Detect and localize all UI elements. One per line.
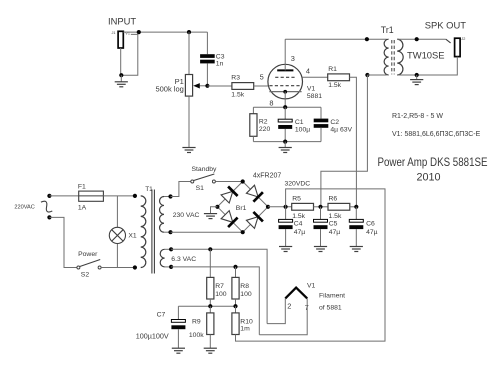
- filament of V1: [285, 288, 307, 299]
- transformer T1 HV secondary winding: [160, 197, 164, 233]
- speaker jack J2: [446, 37, 466, 57]
- wire R10 to B+ rail: [236, 189, 386, 341]
- capacitor C3: [200, 54, 215, 58]
- node mains terminal N: [47, 215, 51, 219]
- svg-text:1.5k: 1.5k: [328, 82, 341, 89]
- svg-text:1.5k: 1.5k: [292, 213, 305, 220]
- svg-text:R8: R8: [240, 283, 249, 290]
- wire bridge positive to rail: [268, 206, 292, 208]
- wire R6 to C6 node: [350, 206, 357, 208]
- wire Tr1 secondary bottom: [397, 74, 417, 76]
- node secondary top dot: [415, 37, 419, 41]
- wire C7 bottom lead: [177, 329, 179, 348]
- resistor R9: [207, 313, 214, 335]
- wire humdinger rail: [178, 305, 235, 307]
- wire P1 top lead: [188, 32, 190, 74]
- svg-text:C6: C6: [366, 220, 375, 227]
- svg-text:1m: 1m: [240, 326, 250, 333]
- svg-text:5: 5: [260, 73, 264, 82]
- ground C7: [172, 347, 185, 349]
- wire wiper node to R3: [207, 85, 232, 87]
- node anode wire dot: [365, 37, 369, 41]
- svg-text:4µ 63V: 4µ 63V: [330, 126, 352, 133]
- wire S1 to bridge top: [215, 181, 242, 183]
- ground input jack: [120, 75, 122, 81]
- node 6.3V top tap: [165, 248, 172, 250]
- svg-text:230 VAC: 230 VAC: [173, 212, 200, 219]
- svg-text:C2: C2: [330, 119, 339, 126]
- svg-text:100µ: 100µ: [295, 126, 310, 133]
- svg-text:R10: R10: [240, 318, 253, 325]
- svg-text:C4: C4: [294, 220, 303, 227]
- ground C5: [314, 246, 327, 248]
- svg-text:220VAC: 220VAC: [14, 205, 34, 211]
- svg-text:1.5k: 1.5k: [231, 91, 244, 98]
- svg-text:Standby: Standby: [192, 166, 218, 173]
- svg-text:100: 100: [215, 291, 227, 298]
- svg-text:V1: V1: [307, 86, 316, 93]
- svg-text:4xFR207: 4xFR207: [253, 173, 282, 180]
- wire C6 top lead: [355, 207, 357, 220]
- node bridge top: [241, 179, 245, 183]
- resistor R7: [207, 277, 214, 299]
- node 6.3V bottom tap: [165, 266, 172, 268]
- node R8 tap: [233, 265, 237, 269]
- svg-text:C5: C5: [329, 220, 338, 227]
- capacitor C1: [278, 119, 292, 122]
- svg-text:47µ: 47µ: [366, 229, 378, 236]
- wire C1 bottom lead: [284, 129, 286, 142]
- node C5 junction: [318, 205, 322, 209]
- wire jack sleeve bracket: [121, 34, 138, 75]
- svg-text:SPK OUT: SPK OUT: [425, 20, 466, 31]
- svg-text:2010: 2010: [416, 172, 440, 184]
- svg-text:J2: J2: [461, 37, 465, 41]
- ground C4: [279, 246, 292, 248]
- capacitor C2: [314, 119, 329, 123]
- resistor R5: [292, 203, 314, 210]
- wire input jack tip to signal line: [123, 31, 130, 33]
- wire cathode top rail: [253, 106, 321, 108]
- wire jack tip return: [120, 48, 122, 75]
- node R7 R9 junction: [208, 304, 212, 308]
- input jack J1: [112, 31, 130, 48]
- transformer Tr1 secondary winding: [397, 39, 403, 75]
- node bridge bottom: [241, 230, 245, 234]
- svg-text:R3: R3: [231, 75, 240, 82]
- svg-text:R1: R1: [328, 66, 337, 73]
- node wiper junction: [205, 84, 209, 88]
- svg-text:220: 220: [259, 126, 271, 133]
- wire input signal line: [131, 31, 208, 33]
- svg-text:Power Amp DKS 5881SE: Power Amp DKS 5881SE: [378, 156, 488, 169]
- wire C4 top lead: [285, 207, 287, 220]
- wire 6.3VAC top line: [171, 249, 267, 323]
- node T1 primary top dot: [133, 194, 137, 198]
- ground R9: [204, 347, 217, 349]
- wire filament pin 2 leg: [267, 298, 285, 323]
- node R8 R10 junction: [233, 304, 237, 308]
- wire fuse to T1 primary top: [103, 195, 134, 197]
- svg-text:of 5881: of 5881: [319, 304, 342, 311]
- svg-text:R9: R9: [192, 318, 201, 325]
- node C4 junction: [284, 205, 288, 209]
- svg-text:4: 4: [306, 67, 310, 76]
- transformer Tr1 core: [391, 40, 393, 74]
- wire C4 bottom lead: [285, 229, 287, 246]
- wire R9 top lead: [209, 306, 211, 313]
- wire C5 bottom lead: [320, 229, 322, 246]
- node HV secondary bottom tap: [164, 231, 171, 233]
- svg-text:2: 2: [287, 302, 291, 311]
- svg-text:1n: 1n: [216, 60, 224, 67]
- wire C2 top lead: [320, 107, 322, 118]
- transformer T1 6.3V winding: [160, 249, 164, 267]
- bridge rectifier Br1: [217, 182, 268, 233]
- svg-text:47µ: 47µ: [329, 229, 341, 236]
- switch S1 Standby: [191, 174, 216, 183]
- switch S2 Power: [77, 260, 101, 270]
- wire HV top tap to S1: [171, 182, 191, 197]
- wire B+ feed to C5 node: [321, 75, 368, 207]
- node input jack sleeve junction: [137, 30, 141, 34]
- svg-text:5881: 5881: [307, 93, 322, 100]
- transformer Tr1 primary winding: [384, 39, 388, 75]
- svg-text:C3: C3: [216, 53, 225, 60]
- svg-text:R1-2,R5-8 - 5 W: R1-2,R5-8 - 5 W: [392, 113, 443, 120]
- resistor R1: [328, 74, 350, 81]
- wire C3 to wiper node: [206, 63, 208, 85]
- svg-text:Tr1: Tr1: [381, 25, 394, 35]
- svg-text:R6: R6: [329, 195, 338, 202]
- wire 6.3VAC bottom line: [171, 267, 259, 335]
- wire R5 to R6: [314, 206, 329, 208]
- wire R7 bottom lead: [209, 299, 211, 306]
- wire filament pin 7 leg: [259, 298, 307, 334]
- tube V1 5881: [268, 64, 303, 99]
- svg-text:7: 7: [305, 303, 309, 312]
- wire screen pin 4 to R1: [302, 76, 328, 78]
- wire C6 bottom lead: [355, 229, 357, 246]
- wire mains live to fuse: [49, 195, 78, 197]
- svg-text:S1: S1: [196, 185, 205, 192]
- node cathode dot: [283, 90, 287, 94]
- wire C1 top lead: [284, 107, 286, 119]
- svg-text:1.5k: 1.5k: [329, 213, 342, 220]
- wire Tr1 secondary top: [397, 38, 446, 40]
- resistor R6: [328, 203, 350, 210]
- wire cathode lead pin 8: [284, 92, 286, 108]
- wire C2 bottom lead: [320, 128, 322, 142]
- svg-text:Br1: Br1: [236, 205, 247, 212]
- transformer T1 core: [151, 190, 153, 274]
- node R7 tap: [208, 247, 212, 251]
- node T1 primary bottom dot: [133, 265, 137, 269]
- svg-text:V1: 5881,6L6,6П3С,6П3С-Е: V1: 5881,6L6,6П3С,6П3С-Е: [392, 131, 481, 138]
- svg-text:47µ: 47µ: [294, 229, 306, 236]
- potentiometer P1: [185, 75, 207, 97]
- wire R10 top lead: [235, 306, 237, 313]
- transformer T1 primary winding: [141, 196, 146, 268]
- svg-text:100k: 100k: [189, 332, 204, 339]
- node mains terminal L: [47, 194, 51, 198]
- svg-text:Filament: Filament: [319, 293, 345, 300]
- svg-text:R7: R7: [215, 283, 224, 290]
- svg-text:C7: C7: [157, 311, 166, 318]
- node bridge left: [215, 205, 219, 209]
- wire P1 bottom lead: [188, 96, 190, 147]
- wire R8 top lead: [235, 267, 237, 278]
- resistor R8: [232, 277, 239, 299]
- wire bridge negative to ground: [211, 207, 218, 214]
- wire R2 top lead: [252, 107, 254, 114]
- ground bridge negative: [204, 213, 217, 215]
- svg-text:100µ100V: 100µ100V: [136, 332, 169, 341]
- node secondary bottom dot: [415, 73, 419, 77]
- svg-text:500k log: 500k log: [155, 85, 183, 94]
- node P1 top junction: [187, 30, 191, 34]
- svg-text:R5: R5: [292, 195, 301, 202]
- lamp X1: [109, 196, 125, 268]
- resistor R3: [232, 83, 254, 90]
- wire C7 top lead: [177, 306, 179, 319]
- ground C6: [350, 246, 363, 248]
- svg-text:3: 3: [291, 54, 295, 63]
- node Tr1 primary bottom dot: [365, 73, 369, 77]
- wire R7 top lead: [209, 249, 211, 277]
- capacitor C7: [171, 320, 185, 323]
- svg-text:C1: C1: [295, 119, 304, 126]
- svg-text:320VDC: 320VDC: [285, 180, 311, 187]
- wire C5 top lead: [320, 207, 322, 220]
- node bridge right: [266, 205, 270, 209]
- svg-text:R2: R2: [259, 118, 268, 125]
- svg-text:1A: 1A: [78, 204, 87, 211]
- wire J2 sleeve return: [417, 57, 458, 75]
- svg-text:8: 8: [269, 98, 273, 107]
- svg-text:J1: J1: [112, 31, 116, 35]
- node C6 junction: [354, 205, 358, 209]
- node jack ground junction: [119, 73, 123, 77]
- wire C3 branch from signal line: [206, 32, 208, 54]
- resistor R2: [250, 114, 257, 137]
- AC sine symbol: [39, 199, 55, 213]
- svg-text:100: 100: [240, 291, 252, 298]
- svg-text:V1: V1: [307, 282, 316, 289]
- fuse F1: [79, 191, 104, 201]
- svg-text:6.3 VAC: 6.3 VAC: [171, 256, 196, 263]
- svg-text:INPUT: INPUT: [108, 15, 136, 26]
- wire R9 bottom lead: [209, 335, 211, 349]
- ground P1: [182, 147, 195, 149]
- wire mains neutral: [49, 217, 77, 267]
- wire S2 to T1 primary bottom: [101, 267, 135, 269]
- resistor R10: [232, 313, 239, 335]
- svg-text:F1: F1: [78, 183, 86, 190]
- svg-text:TW10SE: TW10SE: [407, 50, 445, 61]
- wire R3 to grid pin 5: [254, 85, 269, 87]
- wire cathode bottom rail: [253, 141, 321, 143]
- wire R2 bottom lead: [252, 136, 254, 141]
- node cathode rail junction: [283, 105, 287, 109]
- ground Tr1 secondary: [416, 75, 418, 79]
- wire anode lead pin 3: [284, 39, 286, 70]
- wire R1 to C6 node: [350, 77, 357, 207]
- svg-text:S2: S2: [81, 271, 90, 278]
- wire Tr1 primary bottom: [367, 74, 386, 76]
- capacitor C5: [314, 219, 328, 222]
- ground cathode network: [284, 142, 286, 148]
- svg-text:Power: Power: [78, 251, 98, 258]
- wire R8 bottom lead: [235, 299, 237, 306]
- node HV secondary top tap: [164, 196, 171, 198]
- wire HV bottom tap to bridge bottom: [171, 231, 243, 233]
- node bottom rail junction: [283, 140, 287, 144]
- capacitor C4: [279, 219, 293, 222]
- svg-text:X1: X1: [128, 233, 137, 240]
- wire anode to Tr1 primary top: [285, 38, 387, 40]
- capacitor C6: [349, 219, 363, 222]
